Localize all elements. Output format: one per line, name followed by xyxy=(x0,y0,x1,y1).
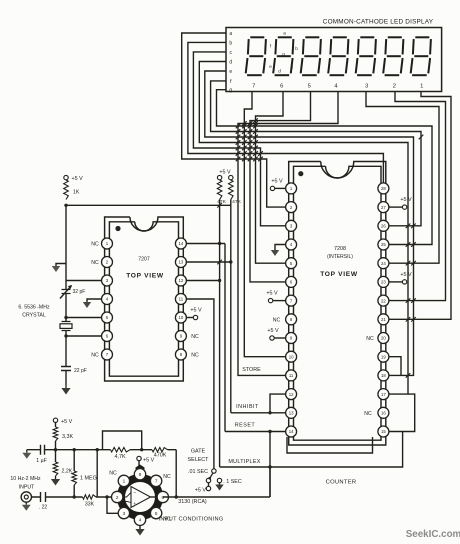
label INTERSIL xyxy=(327,254,353,260)
svg-text:+5 V: +5 V xyxy=(72,176,84,182)
wire digit 3 cathode to 7208 pin 24 xyxy=(366,92,439,264)
svg-text:d: d xyxy=(278,69,281,74)
junction dot 47K-2 pin13 7207 xyxy=(229,260,232,263)
junction dot crystal bottom xyxy=(64,334,67,337)
capacitor C 1uF xyxy=(36,445,46,464)
wire op-amp output xyxy=(151,496,158,498)
svg-text:+5 V: +5 V xyxy=(61,419,73,425)
wire digit 5 cathode to 7208 pin 6 xyxy=(250,92,311,282)
wire segment f to 7208 pin 26 xyxy=(211,81,421,226)
svg-text:14: 14 xyxy=(289,429,294,434)
+5V terminal at 7208 pin 27 xyxy=(389,197,412,209)
svg-text:6: 6 xyxy=(280,83,283,89)
seven-segment digit position 5 xyxy=(301,37,321,75)
svg-text:5: 5 xyxy=(308,83,311,89)
label .1 SEC xyxy=(223,479,242,485)
svg-text:NC: NC xyxy=(163,474,171,480)
switch S1 pole and lever xyxy=(206,473,213,483)
svg-text:SELECT: SELECT xyxy=(188,457,210,463)
svg-text:a: a xyxy=(229,31,232,37)
svg-text:NC: NC xyxy=(91,260,99,266)
svg-text:d: d xyxy=(229,60,232,66)
svg-text:22 pF: 22 pF xyxy=(74,368,87,374)
wire 1K junction to 47K-2 xyxy=(66,204,231,206)
junction dot bias-feedback xyxy=(96,448,99,451)
svg-text:e: e xyxy=(229,69,232,75)
svg-text:+5 V: +5 V xyxy=(219,170,231,176)
ground stub left of 7207 pin3 xyxy=(52,264,66,273)
seven-segment digit position 2 xyxy=(383,37,403,75)
label NC 7208 pin 16 xyxy=(364,411,372,417)
IC U1 7207 oscillator body xyxy=(105,217,184,381)
svg-text:.01 SEC: .01 SEC xyxy=(188,469,208,475)
wire outer U multiplex run xyxy=(220,432,403,468)
svg-text:15: 15 xyxy=(381,429,386,434)
switch S1 contact .01 SEC xyxy=(212,469,216,473)
svg-text:13: 13 xyxy=(289,411,294,416)
svg-text:3130 (RCA): 3130 (RCA) xyxy=(178,499,207,505)
junction dot 470K output xyxy=(175,495,178,498)
svg-text:INHIBIT: INHIBIT xyxy=(236,404,259,410)
label .01 SEC xyxy=(188,469,208,475)
wire hook to op-amp pin 3 xyxy=(107,497,118,513)
7207 pin 1 index dot xyxy=(115,226,120,231)
svg-text:NC: NC xyxy=(109,471,117,477)
svg-text:NC: NC xyxy=(91,353,99,359)
svg-text:47K: 47K xyxy=(232,199,241,205)
svg-text:12: 12 xyxy=(179,278,184,283)
svg-text:27: 27 xyxy=(381,205,386,210)
labels NC 7207 pins 1,2,7 xyxy=(91,242,99,359)
label INPUT CONDITIONING xyxy=(159,517,224,523)
ground below 2.2K xyxy=(51,476,60,486)
svg-text:470K: 470K xyxy=(154,453,167,459)
IC U2 7208 counter body xyxy=(289,162,386,446)
junction dot 1K xyxy=(64,204,67,207)
ground below input jack xyxy=(22,502,31,511)
svg-text:+5 V: +5 V xyxy=(266,291,278,297)
svg-text:+: + xyxy=(133,502,136,507)
common-cathode LED display box xyxy=(226,28,442,92)
7208 pin 12 stub wire xyxy=(270,394,285,413)
7207 pins 1-7 xyxy=(102,238,113,360)
display segment pin letters a-g xyxy=(229,31,232,94)
wire crystal top to 7207 pin5 xyxy=(66,317,102,319)
wire 7208 pin 17 link to pin 15 xyxy=(389,394,415,431)
svg-text:+5 V: +5 V xyxy=(267,328,279,334)
label TOP VIEW U1 xyxy=(126,273,164,280)
ground left of 1uF xyxy=(22,450,31,459)
svg-text:a: a xyxy=(283,31,286,36)
resistor R 3.3K xyxy=(53,423,73,450)
svg-text:12: 12 xyxy=(289,392,294,397)
svg-text:COMMON-CATHODE LED DISPLAY: COMMON-CATHODE LED DISPLAY xyxy=(323,19,434,26)
svg-text:28: 28 xyxy=(381,186,386,191)
svg-text:11: 11 xyxy=(179,297,184,302)
svg-text:25: 25 xyxy=(381,242,386,247)
label 3130 RCA xyxy=(178,499,207,505)
svg-text:10: 10 xyxy=(289,354,294,359)
svg-text:NC: NC xyxy=(273,317,281,323)
svg-text:32 pF: 32 pF xyxy=(73,289,86,295)
svg-text:33K: 33K xyxy=(85,502,95,508)
wire crossing jog marks xyxy=(217,118,423,377)
svg-text:INPUT: INPUT xyxy=(19,485,35,491)
svg-text:11: 11 xyxy=(289,373,294,378)
svg-text:13: 13 xyxy=(179,260,184,265)
wire 7207 pin3 to crystal line xyxy=(66,280,102,282)
svg-text:3,3K: 3,3K xyxy=(62,434,73,440)
svg-text:5: 5 xyxy=(155,511,158,516)
svg-text:7207: 7207 xyxy=(138,257,150,263)
svg-text:g: g xyxy=(229,88,232,94)
wire digit 2 cathode to 7208 pin 22 xyxy=(389,92,446,301)
svg-text:NC: NC xyxy=(91,242,99,248)
wire segment d to 7208 pin 17 xyxy=(199,62,408,395)
capacitor C .22 xyxy=(39,492,48,511)
7208 pins 1-14 xyxy=(286,183,297,437)
resistor 47K second terminal xyxy=(229,175,233,179)
op-amp U3 3130 package ring xyxy=(121,465,159,517)
svg-text:1 MEG: 1 MEG xyxy=(80,476,97,482)
svg-text:23: 23 xyxy=(381,280,386,285)
svg-text:21: 21 xyxy=(381,317,386,322)
+5V terminal 1K xyxy=(64,175,83,182)
svg-text:INPUT CONDITIONING: INPUT CONDITIONING xyxy=(159,517,224,523)
svg-text:GATE: GATE xyxy=(191,449,206,455)
label INHIBIT xyxy=(236,404,259,410)
watermark SeekIC.com xyxy=(406,529,460,540)
svg-text:3: 3 xyxy=(365,83,368,89)
svg-text:18: 18 xyxy=(381,373,386,378)
junction dot 1MEG bottom xyxy=(73,495,76,498)
wire segment g to 7208 pin 25 xyxy=(217,90,433,245)
svg-text:CRYSTAL: CRYSTAL xyxy=(22,313,46,319)
wire 7207 pin12 to multiplex line xyxy=(186,280,219,282)
svg-text:g: g xyxy=(282,52,285,57)
svg-text:17: 17 xyxy=(381,392,386,397)
capacitor trimmer 32pF xyxy=(60,285,85,299)
+5V terminal at 7208 pin 9 xyxy=(267,328,285,340)
+5V terminal switch xyxy=(195,483,211,494)
ground at 7207 pin 4 xyxy=(83,299,102,308)
wire 7207 pin11 to gate select xyxy=(186,299,214,469)
svg-text:47K: 47K xyxy=(217,199,226,205)
ground below 22pF xyxy=(61,385,70,395)
wire crystal bottom to 7207 pin6 xyxy=(66,335,102,337)
label TOP VIEW U2 xyxy=(320,271,358,278)
wire RESET vertical xyxy=(224,244,226,432)
svg-text:20: 20 xyxy=(381,336,386,341)
svg-text:. 22: . 22 xyxy=(39,505,48,511)
svg-text:16: 16 xyxy=(381,411,386,416)
ground op-amp pin 4 xyxy=(135,526,144,536)
wire segment a to 7208 pin 2 xyxy=(182,33,286,207)
wire 47K-1 multiplex vertical xyxy=(219,200,221,468)
resistor R 470K xyxy=(152,448,168,459)
resistor R 2.2K xyxy=(53,450,73,476)
junction dot 470K left xyxy=(140,448,143,451)
svg-text:+5 V: +5 V xyxy=(400,272,412,278)
svg-text:10: 10 xyxy=(179,315,184,320)
junction dot crystal top xyxy=(64,316,67,319)
label GATE SELECT xyxy=(188,449,210,464)
wire digit 7 cathode to 7208 pin 10 xyxy=(244,92,285,357)
seven-segment digit position 6 xyxy=(273,37,293,75)
7208 pin 1 index dot xyxy=(298,171,303,176)
svg-text:2: 2 xyxy=(393,83,396,89)
+5V terminal at 7208 pin 7 xyxy=(266,291,285,303)
svg-text:1K: 1K xyxy=(73,190,80,196)
switch S1 contact .1 SEC xyxy=(215,478,223,490)
+5V terminal 7207 pin 10 xyxy=(186,307,202,319)
svg-text:7: 7 xyxy=(252,83,255,89)
ground at 7208 pin 4 xyxy=(271,245,286,257)
svg-text:. 1 SEC: . 1 SEC xyxy=(223,479,242,485)
svg-text:b: b xyxy=(229,40,232,46)
label 6.5536-MHz CRYSTAL xyxy=(18,305,50,319)
7208 pins 15-28 xyxy=(378,183,389,437)
wire 7207 pin14 to 47K junction and reset xyxy=(186,243,225,245)
wire input line xyxy=(32,496,112,498)
svg-text:+5 V: +5 V xyxy=(143,458,155,464)
label 10 Hz-2 MHz INPUT xyxy=(10,476,41,491)
wire crystal chain vertical xyxy=(65,205,67,385)
junction dot pin3 hook xyxy=(105,495,108,498)
wire 470K to output xyxy=(175,450,177,497)
digit number labels 7-1 xyxy=(252,83,423,89)
seven-segment digit position 1 xyxy=(411,37,431,75)
resistor R 1 MEG xyxy=(72,450,97,497)
svg-text:b: b xyxy=(295,46,298,51)
junction dot multiplex-pin14 7207 xyxy=(218,242,221,245)
crystal Y1 6.5536 MHz xyxy=(60,322,72,331)
svg-text:+5 V: +5 V xyxy=(271,179,283,185)
svg-text:+5 V: +5 V xyxy=(400,197,412,203)
labels NC 7207 pins 8,9 xyxy=(191,334,199,359)
wire segment c to 7208 pin 3 xyxy=(193,52,285,226)
wire junction vertical x270 xyxy=(269,432,271,498)
wire bias to input node xyxy=(96,450,98,497)
label MULTIPLEX xyxy=(228,459,260,465)
label 7208 xyxy=(334,246,346,252)
wire bias line xyxy=(27,449,176,451)
label NC 7208 pin 8 xyxy=(273,317,281,323)
seven-segment digit position 7 xyxy=(246,37,266,75)
label COMMON-CATHODE LED DISPLAY xyxy=(323,19,434,26)
svg-text:NC: NC xyxy=(366,336,374,342)
+5V terminal 3.3K xyxy=(53,418,72,425)
op-amp triangle symbol xyxy=(123,487,151,508)
svg-text:7208: 7208 xyxy=(334,246,346,252)
svg-text:3: 3 xyxy=(123,511,126,516)
label COUNTER xyxy=(326,480,357,486)
svg-text:24: 24 xyxy=(381,261,386,266)
junction dot 1MEG top xyxy=(73,448,76,451)
7207 pins 8-14 xyxy=(175,238,186,360)
svg-text:(INTERSIL): (INTERSIL) xyxy=(327,254,353,260)
wire output corner up xyxy=(269,467,271,497)
capacitor 22pF xyxy=(61,367,87,375)
wire feedback rectangle xyxy=(103,431,142,450)
svg-text:+5 V: +5 V xyxy=(195,488,207,494)
svg-text:22: 22 xyxy=(381,298,386,303)
connector J1 input jack xyxy=(21,492,31,502)
wire segment b to 7208 pin 28 xyxy=(188,42,384,182)
svg-text:−: − xyxy=(133,491,136,496)
label STORE xyxy=(242,367,261,373)
svg-text:NC: NC xyxy=(191,334,199,340)
svg-text:7: 7 xyxy=(155,479,158,484)
svg-text:SeekIC.com: SeekIC.com xyxy=(406,529,460,540)
wire segment e to 7208 pin 18 xyxy=(205,71,414,375)
wire digit 6 cathode to 7208 pin 5 xyxy=(256,92,286,264)
resistor R 1K xyxy=(64,180,80,200)
svg-text:26: 26 xyxy=(381,224,386,229)
svg-text:6. 5536 -MHz: 6. 5536 -MHz xyxy=(18,305,50,311)
junction dot pin12 7207 on multiplex xyxy=(218,279,221,282)
label 7207 xyxy=(138,257,150,263)
resistor 47K first +5V terminal xyxy=(217,170,231,180)
svg-text:1 µF: 1 µF xyxy=(36,458,46,464)
resistor R 4.7K xyxy=(111,447,131,460)
wire RESET 7208 pin14 xyxy=(225,431,285,433)
svg-text:19: 19 xyxy=(381,354,386,359)
wire digit 1 cathode to 7208 pin 21 xyxy=(389,92,451,320)
svg-text:e: e xyxy=(269,64,272,69)
wire op-amp output to junction vertical xyxy=(163,496,270,498)
+5V terminal at 7208 pin 1 xyxy=(270,179,285,191)
wire digit 4 cathode to 7208 pin 11 xyxy=(238,92,338,376)
seven-segment digit position 3 xyxy=(356,37,376,75)
svg-text:NC: NC xyxy=(191,353,199,359)
label RESET xyxy=(235,423,256,429)
svg-text:STORE: STORE xyxy=(242,367,261,373)
labels NC op-amp xyxy=(109,471,171,523)
wire 7207 pin13 to inhibit line xyxy=(186,261,230,263)
svg-text:14: 14 xyxy=(179,241,184,246)
seven-segment digit position 4 xyxy=(328,37,348,75)
svg-text:RESET: RESET xyxy=(235,423,256,429)
svg-text:4: 4 xyxy=(139,518,142,523)
segment labels a,f,b,g,e,c,d around digit 6 xyxy=(269,31,298,74)
svg-text:10 Hz-2 MHz: 10 Hz-2 MHz xyxy=(10,476,41,482)
wire inner U pin14 to pin15 xyxy=(287,437,373,453)
svg-text:TOP VIEW: TOP VIEW xyxy=(126,273,164,280)
wire 47K-2 inhibit vertical xyxy=(230,200,232,413)
+5V terminal op-amp pin 8 xyxy=(137,456,155,468)
svg-text:+5 V: +5 V xyxy=(190,307,202,313)
wire INHIBIT 7208 pin13 xyxy=(231,412,286,414)
junction dots 7208 bottom xyxy=(268,411,271,469)
svg-text:TOP VIEW: TOP VIEW xyxy=(320,271,358,278)
svg-text:2: 2 xyxy=(116,495,119,500)
resistor R 47K second xyxy=(229,180,242,205)
+5V terminal at 7208 pin 23 xyxy=(389,272,412,284)
resistor R 47K first xyxy=(217,180,226,205)
label NC 7208 pin 20 xyxy=(366,336,374,342)
svg-text:1: 1 xyxy=(420,83,423,89)
svg-text:COUNTER: COUNTER xyxy=(326,480,357,486)
wire 7208 pin 19 to pin 18 bridge xyxy=(389,357,401,376)
svg-text:8: 8 xyxy=(139,472,142,477)
svg-text:MULTIPLEX: MULTIPLEX xyxy=(228,459,260,465)
op-amp U3 pins 1-8 xyxy=(112,469,169,526)
junction dot 3.3K xyxy=(54,448,57,451)
resistor R 33K xyxy=(83,495,97,508)
svg-text:4,7K: 4,7K xyxy=(114,454,125,460)
svg-text:1: 1 xyxy=(123,479,126,484)
svg-text:NC: NC xyxy=(364,411,372,417)
